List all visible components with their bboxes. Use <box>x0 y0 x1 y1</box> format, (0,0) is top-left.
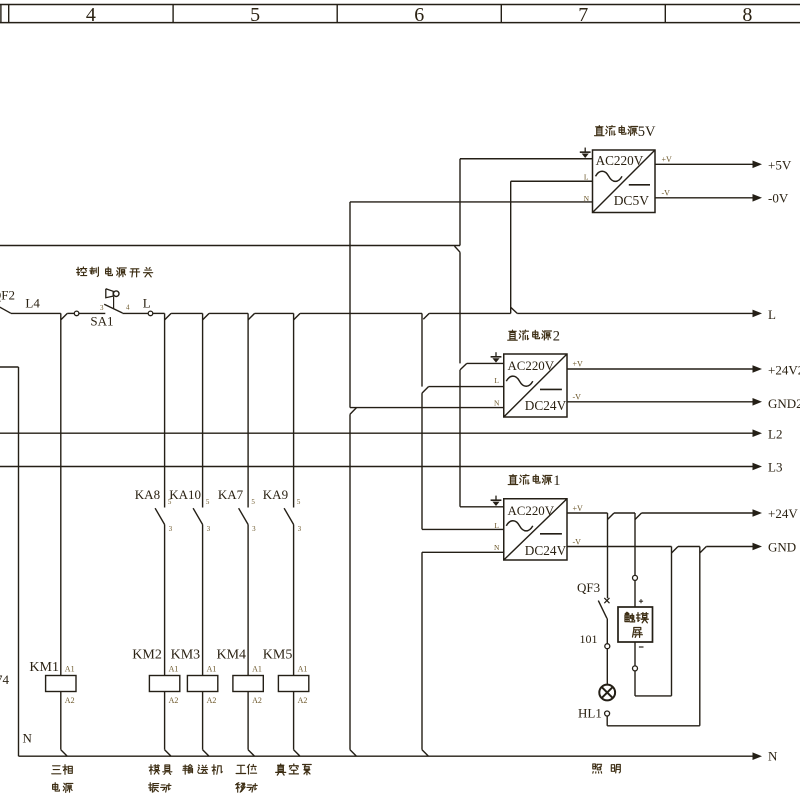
contact KA10 blade <box>193 508 203 524</box>
svg-text:KM2: KM2 <box>132 647 162 662</box>
wire DC1 PE input y=506.8 <box>460 506 504 508</box>
wire KA7 to KM4 coil <box>247 525 249 676</box>
node N vertical to rail diagonal x=350 <box>350 750 357 757</box>
wire to touchscreen box <box>634 580 636 607</box>
node branch KA9 column <box>294 313 301 320</box>
ground symbol at DC5V input <box>584 148 586 153</box>
svg-text:L3: L3 <box>768 460 782 475</box>
node corner L rail down to DC2 L at x=422 <box>421 313 423 386</box>
node corner PE vertical top x=460 <box>459 159 461 246</box>
wire DC2 PE input y=363.4 <box>467 362 504 364</box>
svg-text:5: 5 <box>251 498 255 506</box>
wire QF3 branch vertical upper x=607.5 <box>607 513 609 598</box>
svg-text:6: 6 <box>414 4 424 26</box>
svg-text:A2: A2 <box>207 696 217 705</box>
svg-text:DC5V: DC5V <box>614 193 650 208</box>
svg-text:L4: L4 <box>25 296 40 311</box>
breaker QF3 cross terminal mark <box>604 598 609 603</box>
svg-text:A1: A1 <box>207 665 217 674</box>
svg-text:2: 2 <box>553 329 560 345</box>
svg-text:5V: 5V <box>638 124 656 140</box>
ground symbol at DC2 input <box>495 352 497 357</box>
label - polarity <box>639 646 644 648</box>
wire QF3 lower stub <box>606 618 608 643</box>
wire KM5 coil to N rail <box>293 692 295 750</box>
svg-text:7: 7 <box>578 4 588 26</box>
coil KM3 <box>187 676 217 692</box>
wire touchscreen branch vertical x=635 upper <box>634 513 636 575</box>
wire +24V output segment 1 <box>567 512 608 514</box>
svg-text:4: 4 <box>126 304 130 312</box>
wire PE distribution vertical x=460 (segment 2) <box>459 252 461 363</box>
svg-text:A2: A2 <box>65 696 75 705</box>
node branch KA8 column <box>165 313 172 320</box>
label + polarity <box>639 600 643 602</box>
node PE branch diagonal at y=245.5 <box>455 246 461 252</box>
svg-text:L2: L2 <box>768 426 782 441</box>
svg-text:KM4: KM4 <box>217 647 247 662</box>
lamp HL1 (circle with X) <box>599 685 615 701</box>
wire +24V output segment 2 <box>614 512 635 514</box>
svg-text:N: N <box>494 399 500 408</box>
arrow -0V <box>753 194 763 202</box>
arrow L <box>753 310 763 318</box>
switch SA1 left terminal circle <box>74 311 79 316</box>
svg-text:5: 5 <box>206 498 210 506</box>
svg-text:N: N <box>494 543 500 552</box>
wire +24V2 output <box>567 368 753 370</box>
svg-text:L: L <box>494 521 499 530</box>
wire KA10 column upper x=202.6 <box>202 313 204 507</box>
switch SA1 right terminal circle <box>148 311 153 316</box>
svg-text:QF2: QF2 <box>0 288 15 303</box>
arrow +24V <box>753 509 763 517</box>
svg-text:-V: -V <box>573 392 582 401</box>
label 工位移动 (station movement) <box>236 765 246 773</box>
contact KA8 blade <box>155 508 165 524</box>
arrow N <box>753 752 763 760</box>
wire L rail segment 1 <box>153 312 165 314</box>
wire L rail segment 5 <box>300 312 422 314</box>
svg-text:+V: +V <box>662 155 673 164</box>
node lamp lower terminal circle <box>605 711 610 716</box>
breaker QF3 blade <box>598 601 607 619</box>
svg-text:N: N <box>768 749 778 764</box>
wire GND output segment 1 <box>567 546 672 548</box>
svg-text:A1: A1 <box>298 665 308 674</box>
node corner +24V down to QF3 x=607.5 <box>608 513 615 520</box>
svg-text:+24V2: +24V2 <box>768 362 800 377</box>
power supply U1 直流电源1 label <box>508 475 518 485</box>
svg-text:KA7: KA7 <box>218 487 244 502</box>
svg-text:-V: -V <box>662 188 671 197</box>
arrow GND <box>753 543 763 551</box>
wire L vertical x=422 (segment 2 to DC1) <box>421 393 423 529</box>
node corner +24V down to touchscreen x=635 <box>635 513 642 520</box>
wire DC1 N input y=552.3 <box>422 551 504 553</box>
wire KA7 column upper x=248.1 <box>247 313 249 507</box>
wire KM1 column x=60.8 <box>60 313 62 675</box>
svg-text:A1: A1 <box>169 665 179 674</box>
wire N distribution vertical x=350 (upper) <box>349 202 351 408</box>
coil KM2 <box>149 676 179 692</box>
wire DC2 N input y=407.6 <box>350 407 504 409</box>
wire GND output segment 3 <box>706 546 753 548</box>
node branch from DC5V L vertical at x=510.7 <box>511 307 518 313</box>
wire PE vertical x=460 (segment 3) <box>459 370 461 507</box>
ground symbol at DC1 input <box>495 496 497 501</box>
wire GND output segment 2 <box>678 546 700 548</box>
wire DC5V N input y=201.9 <box>350 201 593 203</box>
wire KA9 to KM5 coil <box>293 525 295 676</box>
wire KA8 to KM2 coil <box>164 525 166 676</box>
label 三相电源 (three-phase power) <box>52 766 61 774</box>
wire KM2 coil to N rail <box>164 692 166 750</box>
power supply U2 直流电源2 label <box>508 330 518 340</box>
wire L4 to SA1 left contact <box>67 312 74 314</box>
wire touchscreen to GND riser <box>634 671 636 696</box>
svg-text:3: 3 <box>207 525 211 533</box>
coil KM5 <box>278 676 308 692</box>
switch SA1 actuator (control power switch operator) <box>106 289 113 298</box>
wire DC1 N vertical x=422 down to N rail <box>421 552 423 749</box>
touch screen box 触摸屏 <box>618 607 653 642</box>
wire KM1 coil to N rail <box>60 692 62 750</box>
wire N vertical x=350 (lower) <box>349 414 351 750</box>
svg-text:QF3: QF3 <box>577 580 600 595</box>
breaker QF2 blade (clipped at left edge) <box>0 307 11 314</box>
wire DC2 L input y=386.6 <box>429 386 504 388</box>
wire KA9 column upper x=293.6 <box>293 313 295 507</box>
wire KM4 coil to N rail <box>247 692 249 750</box>
wire L rail to arrow <box>517 312 753 314</box>
wire SA1 blade to right contact <box>123 312 149 314</box>
switch SA1 blade <box>104 304 122 313</box>
power supply U3 box AC220V/DC5V <box>593 150 656 213</box>
wire KA10 to KM3 coil <box>202 525 204 676</box>
svg-text:-V: -V <box>573 538 582 547</box>
svg-text:DC24V: DC24V <box>525 543 567 558</box>
svg-text:A2: A2 <box>169 696 179 705</box>
wire DC5V L vertical x=510.7 <box>510 181 512 313</box>
wire DC1 L input y=529.4 <box>422 528 504 530</box>
svg-text:N: N <box>23 730 33 745</box>
wire N rail bottom <box>19 755 754 757</box>
wire KM3 coil to N rail <box>202 692 204 750</box>
svg-text:KA9: KA9 <box>263 487 288 502</box>
svg-text:74: 74 <box>0 672 10 687</box>
svg-text:+V: +V <box>573 504 584 513</box>
svg-text:GND: GND <box>768 540 796 555</box>
svg-text:AC220V: AC220V <box>508 504 555 518</box>
coil KM1 <box>46 676 76 692</box>
wire GND2 output <box>567 401 753 403</box>
svg-text:+5V: +5V <box>768 157 792 172</box>
svg-text:A1: A1 <box>252 665 262 674</box>
svg-text:5: 5 <box>250 4 260 26</box>
svg-text:-0V: -0V <box>768 190 789 205</box>
svg-text:GND2: GND2 <box>768 396 800 411</box>
svg-text:L: L <box>768 307 776 322</box>
wire L rail segment 3 <box>209 312 248 314</box>
wire +24V output segment 3 <box>642 512 754 514</box>
node corner GND down x=699.8 <box>700 547 707 554</box>
node touchscreen - terminal circle <box>633 666 638 671</box>
svg-text:4: 4 <box>86 4 96 26</box>
wire +5V output <box>655 163 753 165</box>
svg-text:HL1: HL1 <box>578 706 602 721</box>
wire QF2 output L4 run <box>11 312 61 314</box>
arrow GND2 <box>753 398 763 406</box>
svg-text:KM1: KM1 <box>29 660 59 675</box>
arrow +24V2 <box>753 365 763 373</box>
node branch KA7 column <box>248 313 255 320</box>
wire L rail segment 6 <box>429 312 511 314</box>
svg-text:3: 3 <box>100 304 104 312</box>
label 照明 (lighting) <box>593 764 602 773</box>
wire L rail segment 4 <box>255 312 294 314</box>
svg-text:8: 8 <box>742 4 752 26</box>
svg-text:A2: A2 <box>298 696 308 705</box>
node QF3 lower terminal circle <box>605 644 610 649</box>
svg-text:SA1: SA1 <box>90 314 113 329</box>
label 控制电源开关 <box>77 267 87 276</box>
wire PE horizontal y=245.5 <box>0 245 460 247</box>
wire DC5V L input y=181.25 <box>511 180 593 182</box>
node corner GND down x=671.5 <box>672 547 679 554</box>
svg-text:+V: +V <box>573 360 584 369</box>
node corner PE at (460,363.4) branch right <box>460 363 467 370</box>
svg-text:AC220V: AC220V <box>508 359 555 373</box>
svg-text:3: 3 <box>169 525 173 533</box>
wire -0V output <box>655 197 753 199</box>
wire N incoming at left edge y=367 <box>0 366 19 368</box>
svg-text:L: L <box>143 296 151 311</box>
svg-text:L: L <box>494 376 499 385</box>
svg-text:KA8: KA8 <box>135 487 160 502</box>
wire DC5V PE input y=158.75 <box>460 158 593 160</box>
node branch KA10 column <box>203 313 210 320</box>
power supply U2 box AC220V/DC24V <box>504 354 567 417</box>
svg-text:A1: A1 <box>65 665 75 674</box>
node junction at x=60.8 on L4 wire <box>61 313 68 320</box>
power supply U3 直流电源5V label <box>595 126 605 136</box>
wire SA1 left contact run <box>79 312 105 314</box>
power supply U1 box AC220V/DC24V <box>504 499 567 560</box>
wire L rail segment 2 <box>171 312 203 314</box>
arrow L3 <box>753 463 763 471</box>
svg-text:101: 101 <box>580 632 598 646</box>
svg-text:5: 5 <box>297 498 301 506</box>
wire lamp bottom to GND riser <box>606 716 608 726</box>
arrow L2 <box>753 429 763 437</box>
wire GND riser x=671.5 <box>671 547 673 696</box>
svg-text:DC24V: DC24V <box>525 398 567 413</box>
node N branch diagonal at (350,407.6) <box>350 408 357 415</box>
wire N left vertical x=18.5 <box>18 367 20 756</box>
contact KA9 blade <box>284 508 294 524</box>
svg-text:3: 3 <box>252 525 256 533</box>
arrow +5V <box>753 161 763 169</box>
wire GND riser x=699.8 <box>699 547 701 726</box>
wire KA8 column upper x=164.6 <box>164 313 166 507</box>
svg-text:A2: A2 <box>252 696 262 705</box>
label 输送机 (conveyor) <box>183 765 193 775</box>
wire from touchscreen bottom <box>634 642 636 666</box>
contact KA7 blade <box>239 508 249 524</box>
node touchscreen + terminal circle <box>633 575 638 580</box>
svg-text:3: 3 <box>298 525 302 533</box>
wire L3 horizontal <box>0 466 753 468</box>
label 模具振动 (mold vibration) <box>149 765 160 775</box>
wire QF3 to lamp <box>606 649 608 685</box>
svg-text:1: 1 <box>553 473 560 489</box>
coil KM4 <box>233 676 263 692</box>
svg-text:AC220V: AC220V <box>596 153 644 168</box>
label 真空泵 (vacuum pump) <box>276 764 286 775</box>
svg-text:L: L <box>584 173 589 182</box>
svg-text:KM3: KM3 <box>171 647 201 662</box>
svg-text:KM5: KM5 <box>263 647 293 662</box>
svg-text:+24V: +24V <box>768 506 798 521</box>
wire L2 horizontal <box>0 432 753 434</box>
title-block header strip <box>0 4 800 6</box>
svg-text:KA10: KA10 <box>169 487 201 502</box>
